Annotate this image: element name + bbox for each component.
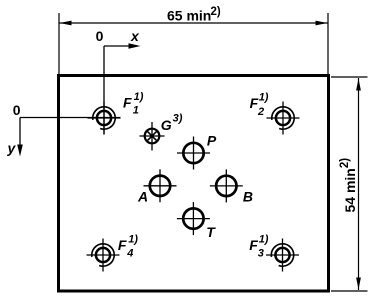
svg-text:1): 1)	[259, 234, 269, 246]
svg-text:G: G	[161, 117, 172, 133]
svg-text:y: y	[7, 140, 17, 156]
svg-text:A: A	[137, 189, 148, 205]
svg-text:F: F	[123, 94, 132, 110]
svg-text:3): 3)	[173, 113, 183, 125]
svg-text:1: 1	[133, 105, 139, 117]
svg-text:F: F	[118, 237, 127, 253]
svg-text:B: B	[243, 188, 253, 204]
svg-text:4: 4	[126, 247, 133, 259]
svg-text:3: 3	[258, 247, 264, 259]
svg-text:1): 1)	[259, 91, 269, 103]
svg-text:0: 0	[96, 28, 104, 44]
svg-text:0: 0	[13, 102, 21, 118]
svg-text:2: 2	[257, 106, 264, 118]
svg-text:T: T	[206, 224, 216, 240]
svg-text:1): 1)	[134, 91, 144, 103]
svg-text:x: x	[130, 28, 140, 44]
svg-text:2): 2)	[211, 6, 221, 18]
svg-text:1): 1)	[128, 234, 138, 246]
svg-text:65 min: 65 min	[167, 8, 211, 24]
svg-text:P: P	[207, 132, 217, 148]
